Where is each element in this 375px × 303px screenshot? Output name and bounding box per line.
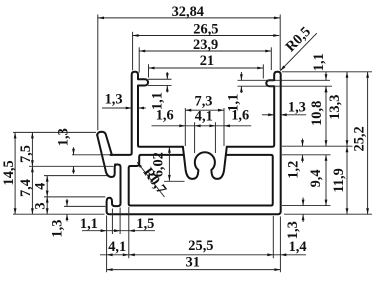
ext line 26,5 left bbox=[132, 32, 134, 71]
dimensions 1,6 / 4,1 / 1,6 chain bbox=[152, 108, 252, 128]
svg-text:14,5: 14,5 bbox=[1, 160, 17, 185]
ext line 4,1 right bbox=[214, 122, 216, 153]
svg-text:32,84: 32,84 bbox=[172, 4, 204, 20]
ext line 21 left bbox=[148, 64, 150, 77]
dimension 1,1 right tab inner bbox=[226, 72, 243, 112]
dimension 7,4 bbox=[18, 166, 34, 214]
ext line hook tip bbox=[44, 175, 107, 177]
dimension 3 bbox=[33, 197, 49, 215]
dimension 1,1 left tab bbox=[149, 72, 168, 110]
ext line web top bbox=[72, 154, 110, 156]
dimension 21 bbox=[149, 53, 264, 69]
dimension 26,5 bbox=[133, 21, 280, 37]
dimension 7,3 bbox=[185, 93, 224, 111]
svg-text:7,5: 7,5 bbox=[18, 145, 34, 163]
dimension 23,9 bbox=[139, 37, 271, 53]
svg-text:31: 31 bbox=[186, 254, 200, 270]
ext line 32,84 right bbox=[279, 15, 281, 71]
svg-text:25,5: 25,5 bbox=[188, 238, 213, 254]
svg-text:7,3: 7,3 bbox=[195, 93, 213, 109]
ext line profile bottom left bbox=[13, 213, 105, 215]
profile left wall with top cap and inner tab bbox=[110, 72, 182, 155]
svg-text:25,2: 25,2 bbox=[351, 126, 367, 151]
dimension 1,3 bottom right bbox=[285, 198, 305, 240]
ext line right tab top bbox=[238, 79, 331, 81]
ext line 7,3 right bbox=[223, 108, 225, 146]
ext line finger top bbox=[44, 196, 105, 198]
dimension 9,4 bbox=[308, 155, 327, 206]
leader R0,5 bbox=[280, 24, 317, 71]
svg-text:10,8: 10,8 bbox=[309, 101, 325, 126]
ext line wall right edge bbox=[128, 207, 130, 258]
ext line bottom outer right bbox=[279, 217, 281, 273]
svg-text:1,3: 1,3 bbox=[285, 221, 301, 239]
svg-text:3: 3 bbox=[33, 202, 49, 209]
ext line 7,3 left bbox=[184, 108, 186, 146]
svg-text:4,1: 4,1 bbox=[195, 108, 213, 124]
dimension 4 bbox=[33, 176, 49, 197]
ext line bottom wall top left bbox=[64, 205, 105, 207]
ext line floor bottom right bbox=[282, 154, 331, 156]
ext line left tab bottom bbox=[148, 84, 172, 86]
dimension 25,2 bbox=[351, 72, 369, 214]
svg-text:1,2: 1,2 bbox=[286, 161, 302, 179]
dimension 1,1 right outer bbox=[311, 53, 328, 94]
slanted upper flange arm bbox=[97, 132, 112, 155]
svg-text:26,5: 26,5 bbox=[193, 21, 218, 37]
svg-text:1,1: 1,1 bbox=[149, 92, 165, 110]
svg-text:1,3: 1,3 bbox=[288, 100, 306, 116]
ext line wall left edge bbox=[119, 208, 121, 235]
flange arm hook bbox=[97, 135, 117, 177]
svg-text:1,4: 1,4 bbox=[289, 239, 307, 255]
svg-text:4: 4 bbox=[33, 183, 49, 190]
svg-text:4,1: 4,1 bbox=[108, 239, 126, 255]
ext line right tab bottom bbox=[238, 85, 333, 87]
dimension 14,5 bbox=[1, 132, 17, 214]
dimension 10,8 bbox=[309, 86, 328, 146]
svg-text:1,3: 1,3 bbox=[56, 128, 72, 146]
svg-text:1,1: 1,1 bbox=[226, 94, 242, 112]
screw channel keyhole cut bbox=[183, 147, 227, 179]
ext line bottom inner right bbox=[272, 216, 274, 258]
ext line profile bottom right bbox=[284, 213, 372, 215]
ext line 23,9 right bbox=[270, 47, 272, 70]
svg-text:1,3: 1,3 bbox=[105, 92, 123, 108]
ext line 32,84 left bbox=[97, 15, 99, 131]
dimension 31 bbox=[107, 254, 281, 271]
profile right wall with cap and inner tab, outer edge, bottom wall and bottom-left finger bbox=[107, 72, 281, 214]
ext line web bottom bbox=[29, 165, 114, 167]
svg-text:1,1: 1,1 bbox=[311, 53, 327, 71]
svg-text:13,3: 13,3 bbox=[327, 95, 343, 120]
dimension 11,9 bbox=[331, 146, 348, 214]
ext line profile top right bbox=[282, 71, 372, 73]
dimensions 4,1 / 25,5 / 1,4 chain bbox=[100, 238, 307, 256]
ext line arm cap top bbox=[13, 131, 96, 133]
dimension 1,3 right wall bbox=[262, 100, 306, 117]
ext line 21 right bbox=[262, 64, 264, 78]
profile cavity floor bottom edge with step and bottom-right cavity bbox=[129, 155, 273, 206]
ext line left tab top bbox=[148, 78, 172, 80]
dimension 13,3 bbox=[327, 72, 349, 146]
svg-text:11,9: 11,9 bbox=[331, 168, 347, 192]
dimension 7,5 bbox=[18, 132, 34, 166]
svg-text:1,1: 1,1 bbox=[80, 216, 98, 232]
dimension 1,2 bbox=[286, 139, 304, 179]
dimension 1,3 bottom left bbox=[49, 199, 68, 238]
ext line finger right bbox=[111, 209, 113, 235]
ext line 4,1 left bbox=[194, 122, 196, 153]
ext line 6,02 bottom bbox=[164, 180, 185, 182]
dimension 1,3 left wall bbox=[102, 92, 146, 110]
svg-text:9,4: 9,4 bbox=[308, 169, 324, 187]
dimension 32,84 bbox=[98, 4, 280, 20]
dimension 6,02 bbox=[150, 147, 170, 181]
ext line outer left corner bbox=[106, 216, 108, 273]
svg-text:23,9: 23,9 bbox=[193, 37, 218, 53]
ext line cavity bottom right bbox=[282, 205, 331, 207]
dimension 1,3 web bbox=[56, 128, 75, 174]
ext line floor top right bbox=[282, 145, 353, 147]
svg-text:1,5: 1,5 bbox=[136, 216, 154, 232]
ext line 23,9 left bbox=[138, 47, 140, 72]
svg-text:R0,5: R0,5 bbox=[283, 24, 314, 55]
dimensions 1,1 / 1,5 bottom chain bbox=[80, 216, 155, 232]
leader R0,7 bbox=[137, 162, 169, 197]
svg-text:21: 21 bbox=[200, 53, 214, 69]
svg-text:1,3: 1,3 bbox=[49, 220, 65, 238]
